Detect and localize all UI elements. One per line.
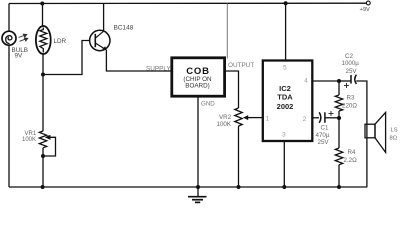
svg-text:OUTPUT: OUTPUT <box>228 62 254 69</box>
svg-text:470µ: 470µ <box>316 132 330 139</box>
node base junction <box>41 73 45 77</box>
svg-text:R3: R3 <box>347 94 355 101</box>
IC U2 TDA2002 box <box>263 61 313 142</box>
svg-text:25V: 25V <box>318 139 330 146</box>
wire base connection <box>43 41 90 75</box>
wire COB output <box>226 71 239 108</box>
svg-text:GND: GND <box>201 101 215 108</box>
COB module U1 <box>172 58 225 96</box>
svg-text:5: 5 <box>283 65 287 72</box>
wire C2 to speaker column <box>356 81 367 187</box>
node LDR top junction <box>40 2 44 6</box>
wiper of VR1 looped to bottom <box>43 137 56 156</box>
node R4-rail junction <box>337 185 341 189</box>
node VR1 bottom junction <box>41 154 45 158</box>
svg-text:+9V: +9V <box>360 7 370 13</box>
wire pin 3 to ground rail <box>283 142 285 188</box>
plus sign C2 <box>344 83 349 88</box>
svg-text:VR2: VR2 <box>219 114 232 121</box>
bulb B1 <box>2 31 16 45</box>
svg-text:IC2: IC2 <box>279 84 291 93</box>
wire bulb bottom to bottom rail <box>8 45 10 187</box>
wire bottom ground rail <box>9 186 367 188</box>
svg-text:4: 4 <box>304 77 308 84</box>
capacitor C1 470u 25V <box>319 112 325 123</box>
node VR2-rail junction <box>237 185 241 189</box>
svg-text:100K: 100K <box>217 121 232 128</box>
capacitor C2 1000u 25V <box>351 75 356 84</box>
wire LDR bottom to node <box>42 54 44 75</box>
wire LDR column top <box>42 4 44 28</box>
resistor R3 220ohm <box>335 81 342 118</box>
svg-text:8Ω: 8Ω <box>390 136 398 142</box>
resistor R4 2.2ohm <box>335 118 342 187</box>
svg-text:220Ω: 220Ω <box>342 102 357 109</box>
svg-text:R4: R4 <box>348 149 356 156</box>
wire collector to rail <box>103 3 105 31</box>
svg-text:1000µ: 1000µ <box>342 60 360 67</box>
node pin5-rail junction <box>284 1 288 5</box>
node gnd-rail junction <box>196 185 200 189</box>
svg-text:3: 3 <box>282 131 286 138</box>
wire COB gnd <box>197 97 199 187</box>
node output junction <box>337 79 341 83</box>
svg-text:LS: LS <box>391 128 398 134</box>
svg-text:1: 1 <box>266 116 270 123</box>
wire emitter to COB supply <box>106 50 170 71</box>
svg-text:2002: 2002 <box>277 102 294 111</box>
svg-text:BOARD): BOARD) <box>185 82 210 89</box>
ground symbol <box>188 187 207 202</box>
svg-text:BC148: BC148 <box>114 25 134 32</box>
svg-text:TDA: TDA <box>277 93 293 102</box>
potentiometer VR2 100K <box>235 108 242 187</box>
svg-text:SUPPLY: SUPPLY <box>146 65 171 72</box>
svg-text:2: 2 <box>303 116 307 123</box>
node VR1-rail junction <box>41 185 45 189</box>
transistor Q1 BC148 <box>90 30 110 50</box>
svg-text:2.2Ω: 2.2Ω <box>344 157 358 164</box>
svg-text:VR1: VR1 <box>25 131 37 137</box>
wire node to C2 <box>339 80 351 82</box>
svg-text:25V: 25V <box>346 68 358 75</box>
LDR <box>36 26 51 54</box>
node pin3-rail junction <box>282 185 286 189</box>
battery terminal +9V <box>366 1 370 5</box>
svg-text:9V: 9V <box>15 52 24 59</box>
wire C1 to node <box>325 117 339 119</box>
wire top +9V rail <box>9 2 366 4</box>
wire pin 4 to output node <box>312 80 339 82</box>
plus sign C1 <box>329 111 334 116</box>
svg-text:C1: C1 <box>321 125 329 132</box>
light rays arrows at bulb <box>19 34 28 41</box>
potentiometer VR1 100K <box>39 131 46 187</box>
emitter arrow of Q1 <box>102 46 107 50</box>
wire left branch (bulb column) <box>8 4 10 32</box>
node C1/R3/R4 junction <box>337 116 341 120</box>
wire LDR node down to VR1 <box>42 75 44 132</box>
wiper of VR2 to pin1 <box>247 117 262 119</box>
loudspeaker LS <box>365 112 386 152</box>
svg-text:LDR: LDR <box>54 38 67 45</box>
wire pin 2 to C1 <box>312 117 319 119</box>
svg-text:100K: 100K <box>22 137 36 143</box>
wire pin 5 to +9V rail <box>285 3 287 60</box>
wire +9V rail to COB corner <box>226 3 228 58</box>
